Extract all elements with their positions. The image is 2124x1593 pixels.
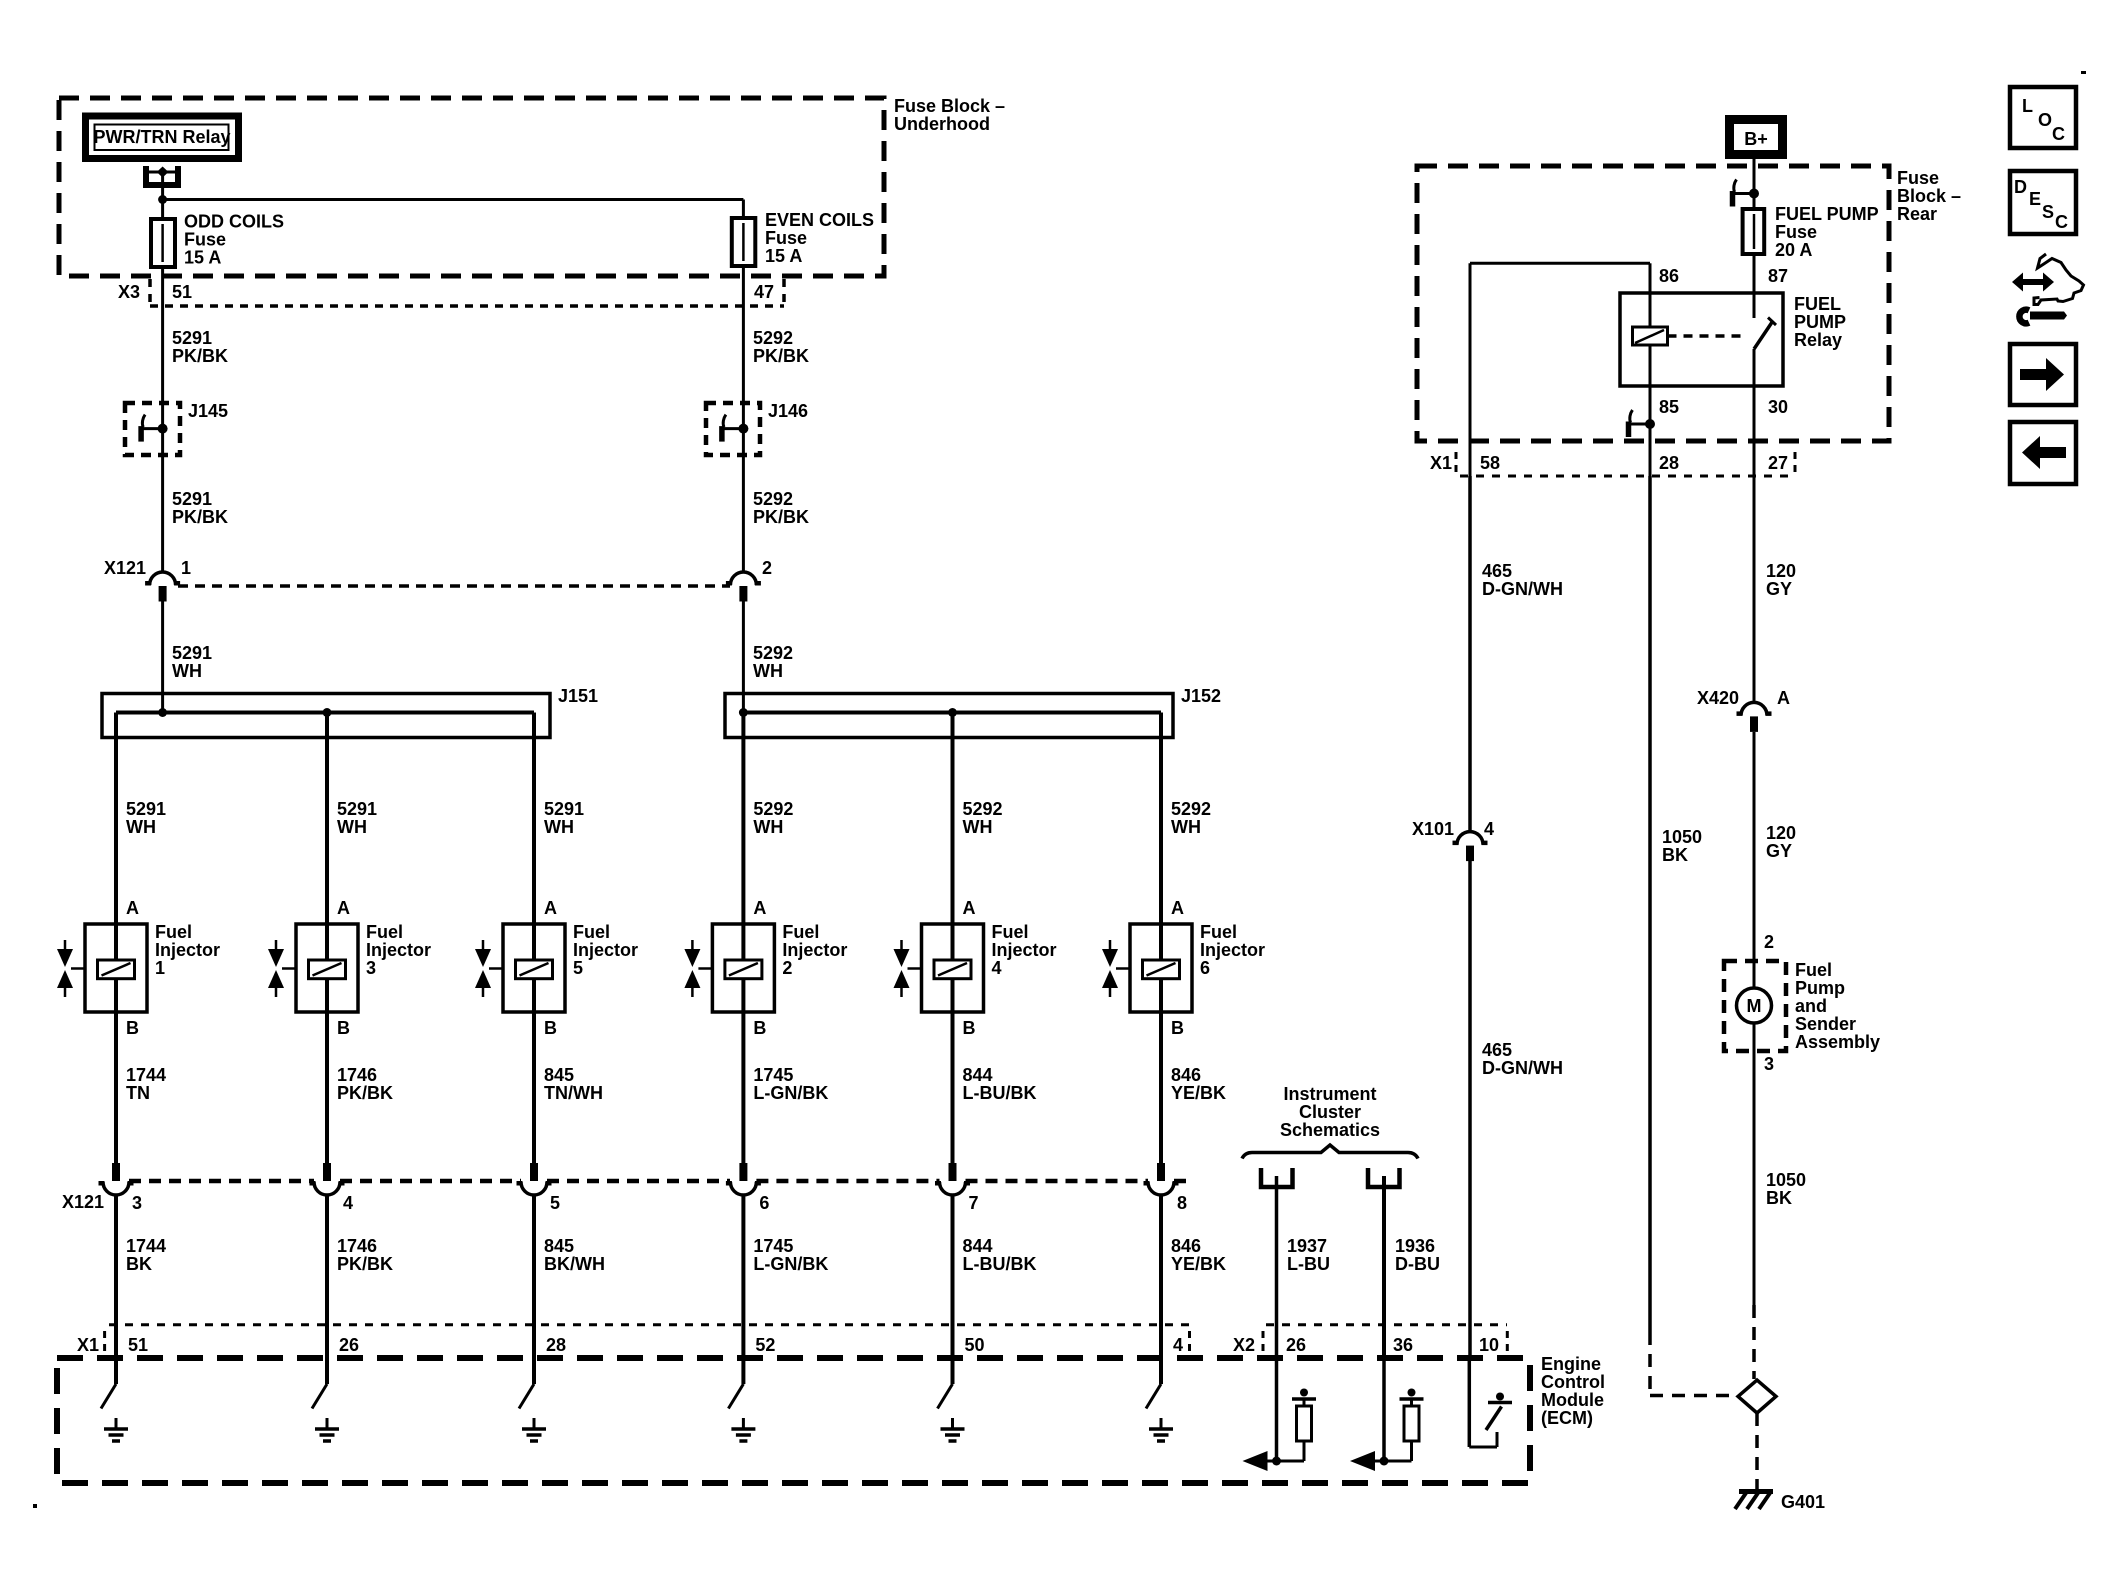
svg-text:28: 28 — [1659, 453, 1679, 473]
svg-text:26: 26 — [339, 1335, 359, 1355]
fuse F2 EVEN COILS 15A — [732, 218, 756, 266]
pin 2 of X121 — [762, 558, 772, 578]
engine control module dashed box — [57, 1358, 1530, 1483]
pin 4 of X121 — [343, 1193, 353, 1213]
icon DESC box — [2010, 171, 2076, 234]
power node B+ box — [1730, 120, 1783, 155]
node junction J151 mid tap — [323, 708, 332, 717]
svg-text:Fuse: Fuse — [765, 228, 807, 248]
svg-text:B: B — [337, 1018, 350, 1038]
svg-text:TN/WH: TN/WH — [544, 1083, 603, 1103]
svg-text:PK/BK: PK/BK — [337, 1254, 393, 1274]
svg-text:B: B — [753, 1018, 766, 1038]
label 1746 PK/BK col 3 — [337, 1065, 393, 1103]
svg-text:FUEL: FUEL — [1794, 294, 1841, 314]
svg-text:30: 30 — [1768, 397, 1788, 417]
label Fuel Injector 6 — [1200, 922, 1265, 978]
wire from J-bus to fuel injector 6 — [1159, 713, 1163, 925]
label 1937 L-BU — [1287, 1236, 1330, 1274]
svg-text:L-BU/BK: L-BU/BK — [963, 1083, 1037, 1103]
svg-text:5291: 5291 — [126, 799, 166, 819]
label 1050 BK pump — [1766, 1170, 1806, 1208]
svg-text:28: 28 — [546, 1335, 566, 1355]
label 5292 PK/BK upper — [753, 328, 809, 366]
label 1744 TN col 1 — [126, 1065, 166, 1103]
svg-text:51: 51 — [128, 1335, 148, 1355]
icon back arrow box — [2010, 422, 2076, 484]
fuse F3 FUEL PUMP 20A — [1743, 209, 1765, 254]
label 846 YE/BK col 6 — [1171, 1065, 1226, 1103]
pin 85 label — [1659, 397, 1679, 417]
label Fuel Injector 1 — [155, 922, 220, 978]
svg-text:1745: 1745 — [753, 1065, 793, 1085]
label Fuel Injector 4 — [992, 922, 1057, 978]
wire 465 D-GN/WH lower — [1468, 861, 1472, 1358]
ground in ECM col 5 — [522, 1418, 546, 1441]
ECM pull-up driver for pin 26 — [1243, 1358, 1317, 1471]
pin B of fuel injector 5 — [544, 1018, 557, 1038]
ECM driver switch col 1 — [101, 1384, 116, 1409]
svg-text:6: 6 — [1200, 958, 1210, 978]
connector X3 tick right — [782, 279, 786, 306]
svg-text:1746: 1746 — [337, 1236, 377, 1256]
svg-text:Block –: Block – — [1897, 186, 1961, 206]
label EVEN COILS Fuse 15 A — [765, 210, 874, 266]
svg-text:87: 87 — [1768, 266, 1788, 286]
svg-text:B: B — [126, 1018, 139, 1038]
wire pin 87 into relay — [1753, 254, 1756, 318]
svg-text:PK/BK: PK/BK — [172, 507, 228, 527]
pin 26 of X1 — [339, 1335, 359, 1355]
pin 51 of X1 — [128, 1335, 148, 1355]
connector X2 dashed line — [1266, 1323, 1507, 1326]
clip at relay pin 85 — [1628, 410, 1655, 437]
svg-text:1050: 1050 — [1662, 827, 1702, 847]
wire 1745 L-GN/BK to ECM — [741, 1194, 745, 1385]
svg-text:5291: 5291 — [337, 799, 377, 819]
connector X121 label top — [104, 558, 146, 578]
svg-text:1050: 1050 — [1766, 1170, 1806, 1190]
svg-text:20 A: 20 A — [1775, 240, 1812, 260]
svg-text:4: 4 — [1484, 819, 1494, 839]
connector X1 tick — [103, 1331, 106, 1355]
svg-text:WH: WH — [337, 817, 367, 837]
node junction J152 feed — [739, 708, 748, 717]
svg-text:Fuse: Fuse — [1897, 168, 1939, 188]
fuel pump and sender assembly dashed box — [1724, 961, 1786, 1051]
svg-text:3: 3 — [1764, 1054, 1774, 1074]
node junction J151 feed — [158, 708, 167, 717]
svg-text:Fuel: Fuel — [1795, 960, 1832, 980]
svg-text:8: 8 — [1177, 1193, 1187, 1213]
svg-text:Fuel: Fuel — [782, 922, 819, 942]
connector X1 label right — [1430, 453, 1452, 473]
svg-text:BK: BK — [1766, 1188, 1792, 1208]
motor M fuel pump — [1737, 961, 1772, 1051]
svg-text:A: A — [1171, 898, 1184, 918]
svg-text:B: B — [544, 1018, 557, 1038]
svg-text:X1: X1 — [1430, 453, 1452, 473]
connector X420 label — [1697, 688, 1739, 708]
svg-text:50: 50 — [965, 1335, 985, 1355]
svg-text:1: 1 — [181, 558, 191, 578]
wire injector 2 to X121 — [741, 1012, 745, 1163]
label 465 D-GN/WH lower — [1482, 1040, 1563, 1078]
svg-text:A: A — [753, 898, 766, 918]
ground G401 symbol — [1735, 1492, 1773, 1510]
wire injector 3 to X121 — [325, 1012, 329, 1163]
connector X1 end tick — [1188, 1331, 1191, 1355]
connector X121 pin 8 halves — [1144, 1163, 1179, 1195]
label Fuel Pump and Sender Assembly — [1795, 960, 1880, 1052]
svg-text:5292: 5292 — [753, 799, 793, 819]
svg-text:5291: 5291 — [172, 489, 212, 509]
svg-text:X420: X420 — [1697, 688, 1739, 708]
svg-text:Assembly: Assembly — [1795, 1032, 1880, 1052]
label 5291 WH feed — [172, 643, 212, 681]
wire 5291 PK/BK upper segment — [161, 267, 164, 573]
svg-text:X121: X121 — [62, 1192, 104, 1212]
wire 1746 PK/BK to ECM — [325, 1194, 329, 1385]
svg-text:Injector: Injector — [155, 940, 220, 960]
svg-text:L-GN/BK: L-GN/BK — [753, 1083, 828, 1103]
label 1936 D-BU — [1395, 1236, 1440, 1274]
ground in ECM col 3 — [315, 1418, 339, 1441]
connector X3 tick left — [148, 279, 152, 306]
connector X1 right tick right — [1794, 452, 1797, 476]
ECM fuel pump relay driver pin 10 — [1469, 1358, 1512, 1447]
ground in ECM col 6 — [1149, 1418, 1173, 1441]
svg-text:6: 6 — [759, 1193, 769, 1213]
svg-text:J152: J152 — [1181, 686, 1221, 706]
wire 465 D-GN/WH upper — [1468, 476, 1472, 833]
svg-text:Injector: Injector — [782, 940, 847, 960]
label 846 YE/BK lower col 6 — [1171, 1236, 1226, 1274]
icon shortcut arrows wrench — [2012, 254, 2084, 323]
brace under instrument cluster label — [1242, 1145, 1418, 1159]
clip at B+ feed — [1732, 180, 1759, 207]
stray mark top right — [2081, 71, 2086, 74]
ground in ECM col 4 — [941, 1418, 965, 1441]
wire relay pin 30 — [1753, 349, 1756, 476]
svg-text:1937: 1937 — [1287, 1236, 1327, 1256]
pin A of fuel injector 3 — [337, 898, 350, 918]
svg-text:G401: G401 — [1781, 1492, 1825, 1512]
wire 120 GY upper — [1753, 476, 1756, 703]
svg-text:B+: B+ — [1744, 129, 1768, 149]
svg-text:27: 27 — [1768, 453, 1788, 473]
stray mark bottom left — [33, 1504, 37, 1508]
svg-text:A: A — [126, 898, 139, 918]
label 5292 WH col 2 — [753, 799, 793, 837]
svg-text:Injector: Injector — [1200, 940, 1265, 960]
pin 7 of X121 — [969, 1193, 979, 1213]
svg-text:E: E — [2029, 189, 2041, 209]
wire B+ to fuel pump fuse — [1753, 159, 1756, 209]
connector X3 label — [118, 282, 140, 302]
relay coil to switch dashed link — [1668, 334, 1742, 338]
svg-text:7: 7 — [969, 1193, 979, 1213]
svg-text:X2: X2 — [1233, 1335, 1255, 1355]
connector X121 pin 2 halves — [726, 572, 761, 602]
pin 5 of X121 — [550, 1193, 560, 1213]
svg-text:5291: 5291 — [172, 328, 212, 348]
svg-text:PK/BK: PK/BK — [753, 507, 809, 527]
label J151 — [558, 686, 598, 706]
wire 5292 PK/BK upper segment — [742, 266, 745, 573]
svg-text:2: 2 — [762, 558, 772, 578]
svg-text:PK/BK: PK/BK — [172, 346, 228, 366]
svg-text:L: L — [2022, 96, 2033, 116]
svg-text:TN: TN — [126, 1083, 150, 1103]
splice pack J151 box — [102, 694, 550, 738]
connector X121 pin 1 halves — [145, 572, 180, 602]
label FUEL PUMP Relay — [1794, 294, 1846, 350]
pin 3 of X121 — [132, 1193, 142, 1213]
svg-text:3: 3 — [132, 1193, 142, 1213]
pin 1 of X121 — [181, 558, 191, 578]
connector X1 right tick left — [1455, 452, 1458, 476]
wire bus from relay to even coils fuse — [163, 200, 744, 219]
svg-text:J145: J145 — [188, 401, 228, 421]
svg-text:1936: 1936 — [1395, 1236, 1435, 1256]
svg-text:WH: WH — [544, 817, 574, 837]
receptacle terminal to instrument cluster right — [1368, 1168, 1400, 1187]
svg-text:85: 85 — [1659, 397, 1679, 417]
wire 1744 BK to ECM — [114, 1194, 118, 1385]
svg-text:846: 846 — [1171, 1236, 1201, 1256]
svg-text:J146: J146 — [768, 401, 808, 421]
label Engine Control Module (ECM) — [1541, 1354, 1605, 1428]
svg-text:5292: 5292 — [1171, 799, 1211, 819]
svg-text:845: 845 — [544, 1236, 574, 1256]
svg-text:26: 26 — [1286, 1335, 1306, 1355]
pin A of X420 — [1777, 688, 1790, 708]
svg-text:1744: 1744 — [126, 1236, 166, 1256]
svg-text:A: A — [963, 898, 976, 918]
svg-text:4: 4 — [992, 958, 1002, 978]
svg-text:3: 3 — [366, 958, 376, 978]
label 5291 PK/BK lower — [172, 489, 228, 527]
svg-text:YE/BK: YE/BK — [1171, 1083, 1226, 1103]
wire injector 1 to X121 — [114, 1012, 118, 1163]
wire relay pin 85 to X1-28 — [1649, 386, 1652, 476]
svg-text:844: 844 — [963, 1236, 993, 1256]
wire from J-bus to fuel injector 3 — [325, 713, 329, 925]
connector X2 tick — [1262, 1331, 1265, 1355]
connector X101 label — [1412, 819, 1454, 839]
connector X121 pin 5 halves — [517, 1163, 552, 1195]
svg-text:5292: 5292 — [753, 643, 793, 663]
connector X121 top dashed line — [178, 584, 730, 588]
svg-text:WH: WH — [753, 661, 783, 681]
svg-text:120: 120 — [1766, 823, 1796, 843]
pin A of fuel injector 4 — [963, 898, 976, 918]
ECM driver switch col 4 — [938, 1384, 953, 1409]
connector X1 label left — [77, 1335, 99, 1355]
svg-text:1: 1 — [155, 958, 165, 978]
pin B of fuel injector 4 — [963, 1018, 976, 1038]
ECM driver switch col 5 — [519, 1384, 534, 1409]
svg-text:Fuel: Fuel — [1200, 922, 1237, 942]
svg-text:A: A — [544, 898, 557, 918]
pin A of fuel injector 5 — [544, 898, 557, 918]
wire 846 YE/BK to ECM — [1159, 1194, 1163, 1385]
pin 4 of X101 — [1484, 819, 1494, 839]
connector X2 end tick — [1506, 1331, 1509, 1355]
label 845 TN/WH col 5 — [544, 1065, 603, 1103]
wire 5291 WH feed — [161, 602, 164, 713]
pin 6 of X121 — [759, 1193, 769, 1213]
splice J145 box — [125, 403, 180, 455]
svg-text:Instrument: Instrument — [1283, 1084, 1376, 1104]
pin B of fuel injector 2 — [753, 1018, 766, 1038]
label 5292 WH col 4 — [963, 799, 1003, 837]
svg-text:PK/BK: PK/BK — [337, 1083, 393, 1103]
node junction J152 mid tap — [948, 708, 957, 717]
svg-text:Injector: Injector — [992, 940, 1057, 960]
label 5292 WH col 6 — [1171, 799, 1211, 837]
svg-text:and: and — [1795, 996, 1827, 1016]
svg-text:X121: X121 — [104, 558, 146, 578]
svg-text:D-GN/WH: D-GN/WH — [1482, 579, 1563, 599]
relay K1 PWR/TRN Relay box — [86, 116, 239, 159]
svg-text:58: 58 — [1480, 453, 1500, 473]
node junction at relay feed — [158, 195, 167, 204]
wire injector 4 to X121 — [951, 1012, 955, 1163]
wire 1050 BK pump dashed — [1752, 1305, 1756, 1379]
svg-text:BK/WH: BK/WH — [544, 1254, 605, 1274]
svg-text:Underhood: Underhood — [894, 114, 990, 134]
pin 86 label — [1659, 266, 1679, 286]
svg-text:5292: 5292 — [963, 799, 1003, 819]
wire X1-58 to relay coil — [1470, 263, 1650, 476]
svg-text:O: O — [2038, 110, 2052, 130]
svg-text:15 A: 15 A — [765, 246, 802, 266]
connector X420 halves — [1737, 702, 1772, 732]
svg-text:A: A — [1777, 688, 1790, 708]
label J146 — [768, 401, 808, 421]
label 5291 PK/BK upper — [172, 328, 228, 366]
pin 87 label — [1768, 266, 1788, 286]
svg-text:L-BU/BK: L-BU/BK — [963, 1254, 1037, 1274]
splice J145 clip — [141, 415, 168, 442]
label 1050 BK mid — [1662, 827, 1702, 865]
svg-text:PK/BK: PK/BK — [753, 346, 809, 366]
svg-text:Injector: Injector — [573, 940, 638, 960]
pin 58 of X1 — [1480, 453, 1500, 473]
svg-text:WH: WH — [1171, 817, 1201, 837]
svg-text:844: 844 — [963, 1065, 993, 1085]
label Instrument Cluster Schematics — [1280, 1084, 1380, 1140]
connector X121 pin 3 halves — [99, 1163, 134, 1195]
svg-text:5291: 5291 — [172, 643, 212, 663]
svg-text:1745: 1745 — [753, 1236, 793, 1256]
label 5292 PK/BK lower — [753, 489, 809, 527]
svg-text:ODD COILS: ODD COILS — [184, 212, 284, 232]
svg-text:GY: GY — [1766, 841, 1792, 861]
pin 4 of X1 — [1173, 1335, 1183, 1355]
svg-text:5291: 5291 — [544, 799, 584, 819]
svg-text:Schematics: Schematics — [1280, 1120, 1380, 1140]
label Fuel Injector 2 — [782, 922, 847, 978]
label 5291 WH col 5 — [544, 799, 584, 837]
terminal of PWR/TRN relay output — [146, 166, 178, 200]
relay switch lever — [1754, 318, 1776, 350]
relay K2 FUEL PUMP Relay box — [1620, 293, 1783, 386]
svg-text:Module: Module — [1541, 1390, 1604, 1410]
svg-text:Fuel: Fuel — [992, 922, 1029, 942]
label 465 D-GN/WH upper — [1482, 561, 1563, 599]
label 1746 PK/BK lower col 3 — [337, 1236, 393, 1274]
wire from J-bus to fuel injector 1 — [114, 713, 118, 925]
ECM driver switch col 3 — [312, 1384, 327, 1409]
svg-text:Fuel: Fuel — [573, 922, 610, 942]
svg-text:Fuel: Fuel — [155, 922, 192, 942]
pin 28 of X1 — [1659, 453, 1679, 473]
fuse F1 ODD COILS 15A — [151, 219, 175, 267]
connector X101 halves — [1453, 832, 1488, 862]
pin 3 of fuel pump — [1764, 1054, 1774, 1074]
label 5291 WH col 3 — [337, 799, 377, 837]
pin B of fuel injector 3 — [337, 1018, 350, 1038]
label 1745 L-GN/BK col 2 — [753, 1065, 828, 1103]
svg-text:52: 52 — [755, 1335, 775, 1355]
label ODD COILS Fuse 15 A — [184, 212, 284, 268]
svg-text:X3: X3 — [118, 282, 140, 302]
svg-text:4: 4 — [343, 1193, 353, 1213]
svg-text:5292: 5292 — [753, 328, 793, 348]
svg-text:GY: GY — [1766, 579, 1792, 599]
fuel injector 2 (solenoid valve) — [684, 924, 774, 1012]
wire 1050 BK dashed segment — [1650, 1332, 1736, 1396]
svg-text:Injector: Injector — [366, 940, 431, 960]
ECM pull-up driver for pin 36 — [1350, 1358, 1424, 1471]
svg-text:D: D — [2014, 177, 2027, 197]
svg-text:5: 5 — [573, 958, 583, 978]
svg-text:846: 846 — [1171, 1065, 1201, 1085]
wire injector 6 to X121 — [1159, 1012, 1163, 1163]
wire 844 L-BU/BK to ECM — [951, 1194, 955, 1385]
label 1744 BK lower col 1 — [126, 1236, 166, 1274]
node splice diamond — [1738, 1380, 1776, 1413]
pin 30 label — [1768, 397, 1788, 417]
svg-text:Engine: Engine — [1541, 1354, 1601, 1374]
label 120 GY lower — [1766, 823, 1796, 861]
svg-text:PUMP: PUMP — [1794, 312, 1846, 332]
svg-text:L-GN/BK: L-GN/BK — [753, 1254, 828, 1274]
wire 1050 BK pump ground solid — [1753, 1051, 1756, 1305]
label G401 — [1781, 1492, 1825, 1512]
splice J146 box — [706, 403, 760, 455]
fuel injector 5 (solenoid valve) — [475, 924, 565, 1012]
icon forward arrow box — [2010, 344, 2076, 405]
svg-text:845: 845 — [544, 1065, 574, 1085]
fuel injector 4 (solenoid valve) — [894, 924, 984, 1012]
wire from J-bus to fuel injector 5 — [532, 713, 536, 925]
svg-text:C: C — [2055, 212, 2068, 232]
svg-text:51: 51 — [172, 282, 192, 302]
svg-text:C: C — [2052, 124, 2065, 144]
label Fuel Injector 3 — [366, 922, 431, 978]
label 844 L-BU/BK col 4 — [963, 1065, 1037, 1103]
svg-text:120: 120 — [1766, 561, 1796, 581]
connector X2 label — [1233, 1335, 1255, 1355]
fuel injector 3 (solenoid valve) — [268, 924, 358, 1012]
splice pack J151 bus bar — [116, 711, 534, 715]
svg-text:1744: 1744 — [126, 1065, 166, 1085]
wire from J-bus to fuel injector 2 — [741, 713, 745, 925]
